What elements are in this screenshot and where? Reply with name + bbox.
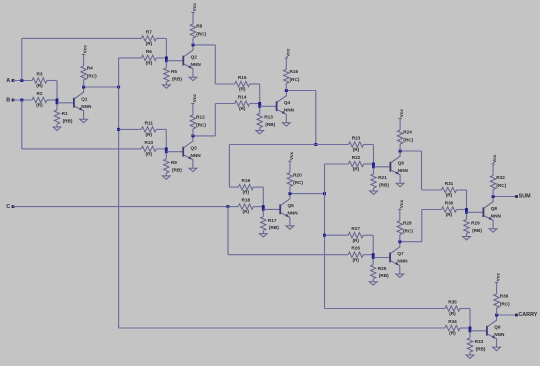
svg-text:R23: R23 (352, 135, 361, 140)
svg-text:(R): (R) (146, 61, 153, 66)
node base of Q1 (56, 99, 59, 105)
svg-text:Q4: Q4 (284, 100, 291, 105)
svg-text:(RC): (RC) (403, 138, 413, 143)
svg-text:(RB): (RB) (172, 167, 182, 172)
svg-text:R8: R8 (196, 24, 202, 29)
wire (493, 196, 516, 198)
svg-text:R2: R2 (37, 91, 43, 96)
wire N1 vertical (118, 58, 120, 328)
svg-text:R25: R25 (378, 266, 387, 271)
svg-text:A: A (6, 78, 10, 84)
svg-text:R4: R4 (87, 66, 93, 71)
svg-text:(RC): (RC) (403, 228, 413, 233)
power flag Vcc (285, 57, 289, 59)
wire (165, 129, 167, 153)
svg-text:(R): (R) (36, 83, 43, 88)
power flag Vcc (491, 163, 495, 165)
resistor R35 (445, 306, 460, 311)
svg-text:(RC): (RC) (87, 74, 97, 79)
transistor Q4 (276, 101, 278, 111)
wire (13, 99, 32, 101)
resistor R17 (262, 211, 264, 217)
svg-text:R12: R12 (196, 115, 205, 120)
node collector of Q4 (285, 89, 288, 92)
svg-text:Q5: Q5 (288, 203, 295, 208)
svg-text:R26: R26 (351, 246, 360, 251)
wire (470, 330, 486, 332)
resistor R13 (259, 108, 261, 114)
transistor Q2 (182, 56, 184, 66)
resistor R8 (192, 38, 194, 45)
wire (421, 210, 423, 242)
node collector of Q1 (82, 86, 85, 89)
wire (57, 102, 73, 104)
resistor R26 (348, 252, 363, 257)
svg-text:(R): (R) (146, 132, 153, 137)
node base of Q3 (165, 147, 168, 153)
svg-text:Q1: Q1 (81, 97, 88, 102)
svg-text:(R): (R) (243, 209, 250, 214)
node base of Q2 (165, 56, 168, 62)
resistor R21 (373, 168, 375, 174)
node N1 junction (117, 128, 120, 131)
node N5 junction (323, 192, 326, 195)
wire (119, 128, 142, 130)
transistor Q1 (73, 98, 75, 108)
node B junction (20, 99, 23, 102)
wire (422, 189, 442, 191)
resistor R1 (56, 104, 58, 110)
wire (215, 83, 234, 85)
svg-text:(R): (R) (352, 257, 359, 262)
node base of Q7 (372, 253, 375, 259)
resistor R3 (32, 78, 47, 83)
wire (165, 38, 167, 62)
svg-text:(R): (R) (353, 147, 360, 152)
ground (466, 355, 474, 358)
ground (163, 85, 171, 88)
svg-text:Q9: Q9 (494, 325, 501, 330)
wire (13, 206, 228, 208)
svg-text:Vcc: Vcc (289, 151, 294, 160)
wire (466, 190, 468, 214)
wire (214, 104, 216, 136)
resistor R27 (348, 233, 363, 238)
svg-text:R5: R5 (171, 69, 177, 74)
node A junction (20, 79, 23, 82)
wire (13, 80, 32, 82)
wire N2 (193, 44, 215, 46)
wire (373, 145, 375, 169)
ground (80, 119, 88, 122)
svg-text:Vcc: Vcc (192, 94, 197, 103)
wire N1 (84, 86, 119, 88)
node collector of Q6 (399, 150, 402, 153)
svg-text:Vcc: Vcc (399, 109, 404, 118)
wire (325, 234, 349, 236)
svg-text:(R): (R) (146, 152, 153, 157)
power flag Vcc (398, 208, 402, 210)
resistor R36 (496, 308, 498, 315)
wire (229, 186, 238, 188)
wire (467, 211, 483, 213)
svg-text:CARRY: CARRY (518, 312, 537, 318)
resistor R20 (289, 187, 291, 194)
svg-text:R17: R17 (268, 218, 277, 223)
resistor R22 (349, 161, 364, 166)
svg-text:R30: R30 (445, 200, 454, 205)
ground (369, 282, 377, 285)
svg-text:R33: R33 (475, 339, 484, 344)
svg-text:R18: R18 (241, 198, 250, 203)
resistor R14 (235, 101, 250, 106)
ground (396, 183, 404, 186)
svg-text:R22: R22 (352, 155, 361, 160)
svg-text:R3: R3 (37, 71, 43, 76)
node N5 junction (323, 234, 326, 237)
wire (325, 308, 446, 310)
svg-text:Vcc: Vcc (83, 45, 88, 54)
wire (421, 151, 423, 190)
resistor R10 (141, 146, 156, 151)
svg-text:Vcc: Vcc (399, 199, 404, 208)
svg-text:R36: R36 (500, 294, 509, 299)
ground (489, 229, 497, 232)
svg-text:Q6: Q6 (398, 161, 405, 166)
svg-text:R11: R11 (145, 120, 154, 125)
svg-text:(RB): (RB) (172, 76, 182, 81)
wire (214, 45, 216, 84)
svg-text:NNN: NNN (397, 259, 408, 264)
node base of Q6 (372, 163, 375, 169)
wire (22, 148, 142, 150)
resistor R28 (399, 235, 401, 242)
wire N5 vertical (324, 164, 326, 309)
ground (162, 176, 170, 179)
svg-text:(RB): (RB) (269, 225, 279, 230)
wire N5 (290, 193, 325, 195)
svg-text:R15: R15 (238, 75, 247, 80)
wire (228, 145, 230, 188)
node C junction (227, 205, 230, 208)
svg-text:C: C (6, 204, 10, 210)
resistor R4 (83, 80, 85, 87)
svg-text:(RB): (RB) (63, 118, 73, 123)
svg-text:NNN: NNN (81, 104, 92, 109)
node N4 junction (314, 143, 317, 146)
wire (22, 37, 142, 39)
resistor R31 (442, 187, 457, 192)
resistor R9 (165, 153, 167, 159)
svg-text:NNN: NNN (288, 211, 299, 216)
wire (56, 81, 58, 105)
svg-text:R10: R10 (144, 140, 153, 145)
svg-text:R21: R21 (378, 175, 387, 180)
svg-text:(R): (R) (352, 238, 359, 243)
svg-text:(R): (R) (353, 167, 360, 172)
svg-text:R29: R29 (471, 221, 480, 226)
svg-text:Vcc: Vcc (192, 3, 197, 12)
resistor R12 (192, 129, 194, 136)
wire (21, 100, 23, 149)
svg-text:(R): (R) (446, 212, 453, 217)
wire (228, 206, 238, 208)
wire (215, 103, 234, 105)
resistor R25 (372, 259, 374, 265)
ground (396, 274, 404, 277)
node collector of Q8 (492, 195, 495, 198)
transistor Q6 (389, 162, 391, 172)
svg-text:(R): (R) (36, 103, 43, 108)
transistor Q8 (482, 207, 484, 217)
wire (119, 57, 142, 59)
svg-text:(RC): (RC) (496, 183, 506, 188)
svg-text:R1: R1 (62, 111, 68, 116)
node collector of Q2 (192, 43, 195, 46)
svg-text:NNN: NNN (191, 62, 202, 67)
wire N7 (400, 241, 422, 243)
wire (469, 309, 471, 333)
svg-text:R34: R34 (448, 319, 457, 324)
svg-text:(R): (R) (449, 311, 456, 316)
svg-text:(RC): (RC) (290, 77, 300, 82)
resistor R23 (349, 142, 364, 147)
svg-text:R24: R24 (403, 130, 412, 135)
resistor R18 (238, 204, 253, 209)
power flag Vcc (398, 118, 402, 120)
node collector of Q7 (398, 240, 401, 243)
svg-text:NNN: NNN (491, 213, 502, 218)
svg-text:R28: R28 (403, 220, 412, 225)
ground (493, 347, 501, 350)
wire (21, 38, 23, 80)
ground (256, 131, 264, 134)
power flag Vcc (495, 282, 499, 284)
wire (497, 314, 517, 316)
svg-text:(RB): (RB) (265, 122, 275, 127)
wire N4 (286, 90, 316, 92)
svg-text:Vcc: Vcc (285, 48, 290, 57)
resistor R11 (141, 127, 156, 132)
wire (316, 144, 349, 146)
svg-text:(RB): (RB) (476, 346, 486, 351)
transistor Q3 (182, 147, 184, 157)
node base of Q8 (465, 208, 468, 214)
power flag Vcc (191, 102, 195, 104)
node collector of Q5 (288, 192, 291, 195)
wire (372, 235, 374, 259)
svg-text:R7: R7 (146, 29, 152, 34)
node base of Q9 (469, 327, 472, 333)
svg-text:(RC): (RC) (196, 123, 206, 128)
resistor R19 (238, 184, 253, 189)
wire (227, 207, 229, 255)
svg-text:R13: R13 (264, 115, 273, 120)
svg-text:R20: R20 (293, 172, 302, 177)
node base of Q5 (262, 205, 265, 211)
svg-text:NNN: NNN (398, 168, 409, 173)
resistor R15 (235, 81, 250, 86)
svg-text:NNN: NNN (284, 107, 295, 112)
transistor Q5 (279, 204, 281, 214)
resistor R32 (492, 190, 494, 197)
power flag Vcc (191, 11, 195, 13)
svg-text:(R): (R) (446, 193, 453, 198)
wire (166, 60, 182, 62)
ground (53, 127, 61, 130)
svg-text:(R): (R) (146, 41, 153, 46)
wire (315, 91, 317, 145)
svg-text:(RC): (RC) (196, 32, 206, 37)
wire (325, 163, 349, 165)
node base of Q4 (258, 102, 261, 108)
resistor R7 (141, 36, 156, 41)
svg-text:R16: R16 (290, 69, 299, 74)
resistor R34 (445, 325, 460, 330)
svg-text:R14: R14 (238, 94, 247, 99)
wire (259, 84, 261, 108)
ground (370, 191, 378, 194)
svg-text:(RB): (RB) (379, 182, 389, 187)
wire (263, 208, 279, 210)
svg-text:Q8: Q8 (491, 206, 498, 211)
node collector of Q9 (495, 314, 498, 317)
svg-text:R31: R31 (445, 181, 454, 186)
svg-text:B: B (6, 97, 10, 103)
resistor R24 (399, 144, 401, 151)
svg-text:R27: R27 (351, 226, 360, 231)
resistor R33 (469, 332, 471, 338)
wire (228, 254, 348, 256)
ground (463, 237, 471, 240)
ground (189, 168, 197, 171)
resistor R6 (141, 55, 156, 60)
resistor R29 (466, 214, 468, 220)
ground (189, 77, 197, 80)
svg-text:Q7: Q7 (397, 251, 404, 256)
svg-text:Q3: Q3 (191, 145, 198, 150)
wire (262, 187, 264, 211)
resistor R30 (442, 207, 457, 212)
wire (260, 105, 276, 107)
svg-text:R32: R32 (496, 175, 505, 180)
svg-text:SUM: SUM (519, 194, 531, 200)
power flag Vcc (82, 54, 86, 56)
svg-text:(R): (R) (449, 331, 456, 336)
wire N6 (400, 150, 421, 152)
ground (282, 123, 290, 126)
svg-text:Vcc: Vcc (496, 273, 501, 282)
wire (166, 151, 182, 153)
svg-text:(R): (R) (243, 190, 250, 195)
svg-text:R19: R19 (241, 178, 250, 183)
svg-text:NNN: NNN (191, 153, 202, 158)
wire (229, 144, 315, 146)
ground (286, 226, 294, 229)
wire (422, 209, 442, 211)
svg-text:(RB): (RB) (472, 228, 482, 233)
svg-text:R9: R9 (171, 160, 177, 165)
wire (373, 257, 389, 259)
ground (259, 234, 267, 237)
node collector of Q3 (191, 134, 194, 137)
transistor Q9 (486, 326, 488, 336)
resistor R5 (165, 62, 167, 68)
resistor R2 (32, 97, 47, 102)
wire (374, 166, 390, 168)
wire N1 bottom rail (119, 327, 445, 329)
transistor Q7 (389, 253, 391, 263)
svg-text:R35: R35 (448, 299, 457, 304)
svg-text:(RC): (RC) (500, 302, 510, 307)
power flag Vcc (288, 160, 292, 162)
wire N3 (193, 135, 215, 137)
svg-text:R6: R6 (146, 49, 152, 54)
svg-text:(RB): (RB) (379, 273, 389, 278)
svg-text:(RC): (RC) (293, 180, 303, 185)
svg-text:(R): (R) (239, 87, 246, 92)
svg-text:(R): (R) (239, 106, 246, 111)
node N1 junction (117, 86, 120, 89)
resistor R16 (285, 84, 287, 91)
svg-text:Vcc: Vcc (492, 154, 497, 163)
svg-text:Q2: Q2 (191, 54, 198, 59)
svg-text:NNN: NNN (494, 332, 505, 337)
